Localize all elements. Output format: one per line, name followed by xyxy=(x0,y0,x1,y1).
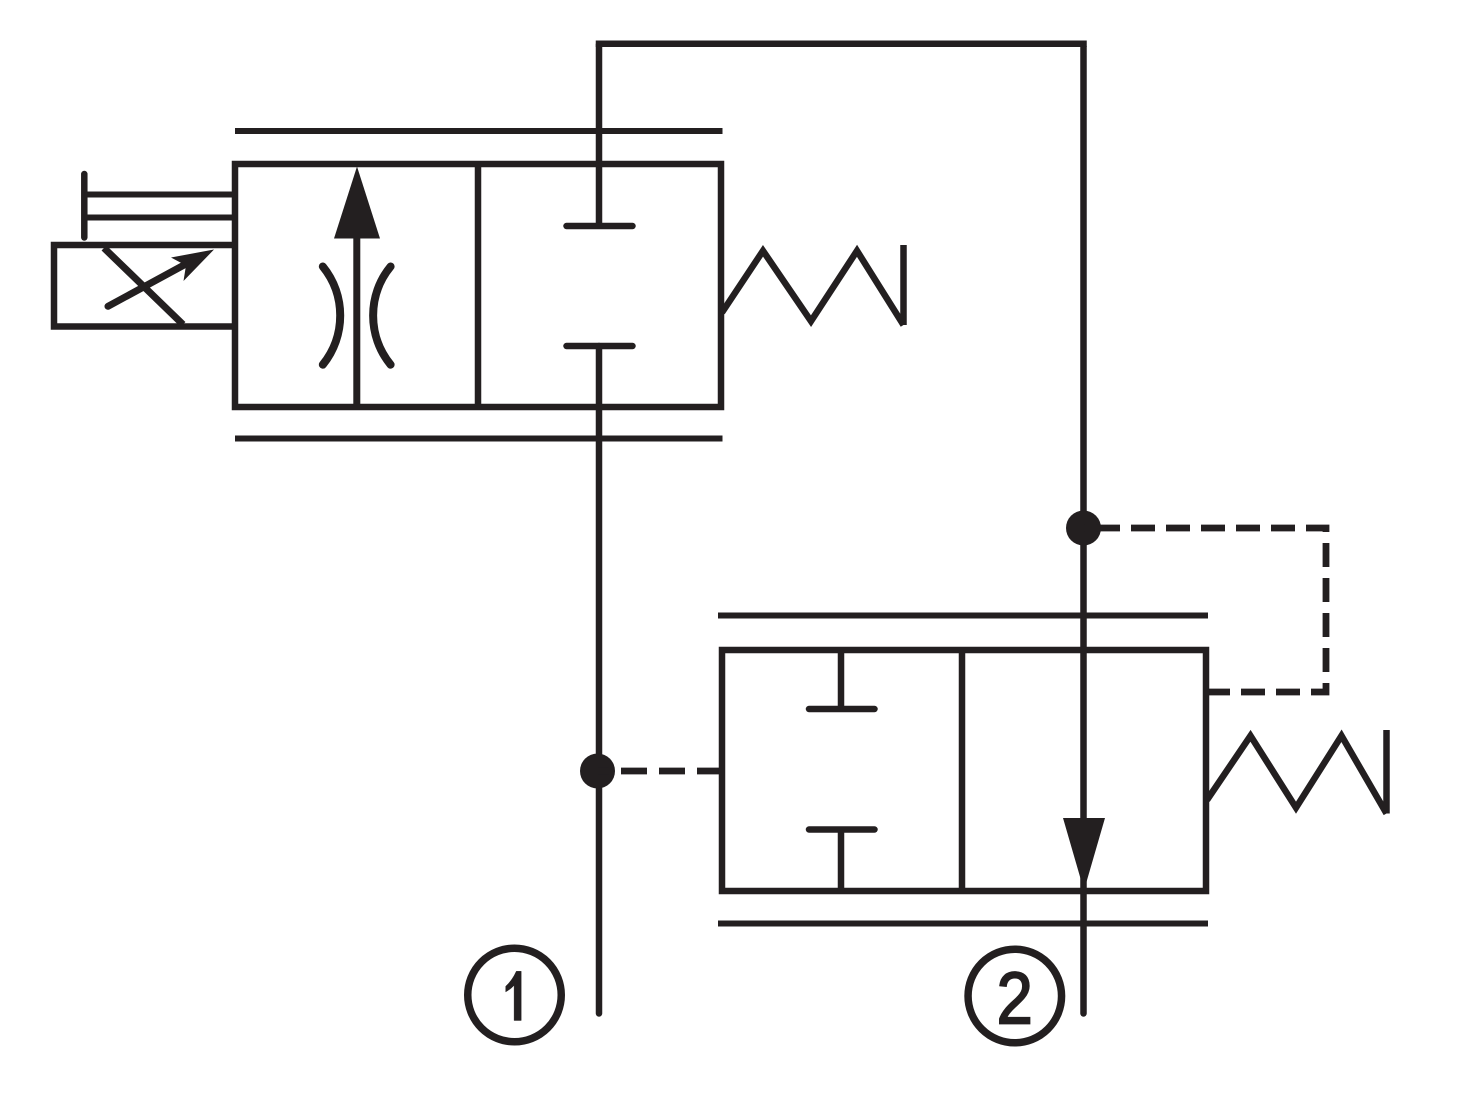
valve V1 modulation line (top) xyxy=(235,128,723,134)
actuator A1 proportional solenoid box xyxy=(54,245,237,327)
actuator A1 solenoid diagonal xyxy=(104,248,183,325)
valve V1 orifice arc right xyxy=(373,267,390,365)
pilot line (dashed) from spring side of valve V2 to node xyxy=(1084,528,1327,692)
valve V1 flow arrow shaft (open position) xyxy=(353,234,360,407)
port 1 circle xyxy=(468,948,562,1042)
pilot line (dashed) from valve V2 to node xyxy=(598,768,724,775)
wire: port 1 vertical line (valve V1 bottom port down to port 1) xyxy=(596,346,603,1014)
wire: top horizontal run to port 2 branch xyxy=(596,41,1087,48)
valve V1 orifice arc left xyxy=(323,267,340,365)
valve V2 blocked port stem (top) xyxy=(838,650,845,709)
node: junction dot on port 2 line (pilot tap) xyxy=(1066,511,1101,546)
valve V1 modulation line (bottom) xyxy=(235,436,723,442)
actuator A1 proportional arrowhead xyxy=(171,250,214,282)
actuator A1 proportional arrow shaft xyxy=(108,259,196,307)
port 2 circle xyxy=(968,949,1062,1043)
valve V1 blocked port crossbar (bottom, closed position) xyxy=(567,343,633,350)
wire: vertical from valve V1 blocked port up to top run xyxy=(596,44,603,226)
valve V2 modulation line (top) xyxy=(718,613,1208,619)
actuator A1 pin bar (armature) xyxy=(81,174,88,238)
actuator A1 upper lead xyxy=(84,192,236,198)
valve V2 position divider xyxy=(959,650,966,891)
valve V2 blocked port crossbar (bottom) xyxy=(809,826,875,833)
valve V2 blocked port stem (bottom) xyxy=(838,830,845,892)
wire: port 2 vertical line (top run down to port 2) xyxy=(1080,47,1087,1014)
valve V2 flow arrowhead (downward, open position) xyxy=(1063,818,1105,891)
valve V2 body (2-position compensator envelope) xyxy=(722,650,1206,891)
valve V1 flow arrowhead xyxy=(334,167,380,239)
valve V2 modulation line (bottom) xyxy=(718,921,1208,927)
node: junction dot on port 1 line (pilot tap) xyxy=(580,754,615,789)
valve V1 body (2-position throttle valve envelope) xyxy=(235,164,721,407)
valve V1 position divider xyxy=(475,164,482,407)
valve V1 return spring xyxy=(722,245,904,325)
valve V1 blocked port crossbar (top, closed position) xyxy=(567,223,633,230)
port 2 label (digit 2 glyph) xyxy=(1000,972,1030,1023)
valve V2 return spring xyxy=(1207,730,1387,814)
actuator A1 lower lead xyxy=(84,215,236,221)
valve V2 blocked port crossbar (top) xyxy=(809,706,875,713)
port 1 label (digit 1 glyph) xyxy=(506,971,522,1020)
